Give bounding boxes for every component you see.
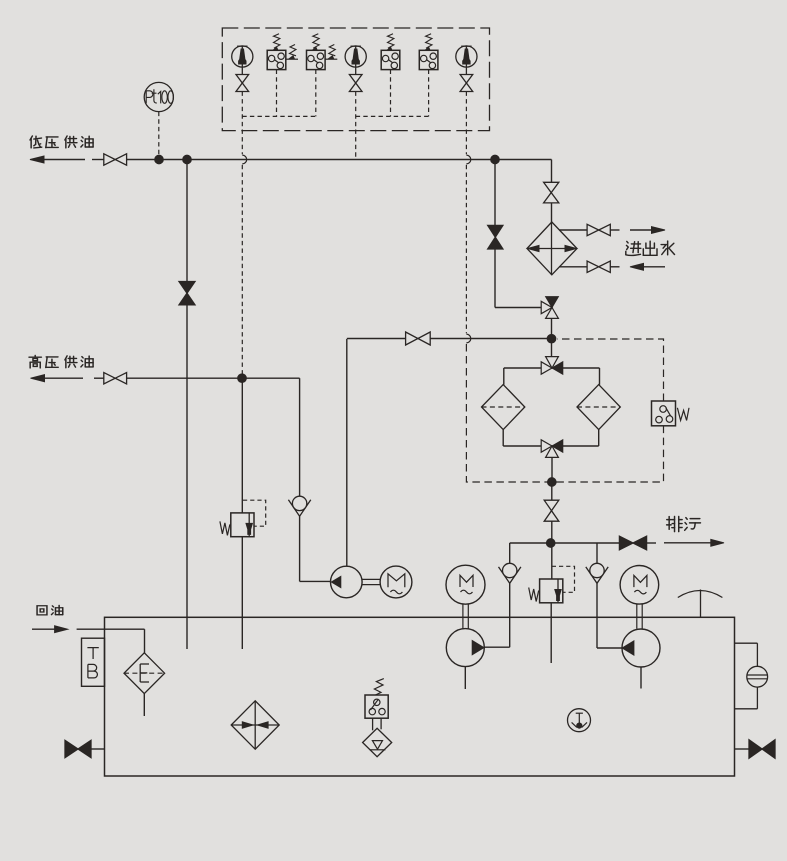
drain outlet arrow 排污 — [664, 539, 724, 546]
wire high-pressure header corner down to check valve — [299, 378, 301, 496]
wire back-pressure valve outlet into tank — [550, 603, 552, 663]
filter outlet rail wires — [503, 430, 599, 446]
junction node filter outlet on enclosure edge — [547, 478, 556, 487]
pilot relief valve (high pressure) — [220, 500, 266, 537]
thermostat box TB — [82, 638, 105, 686]
air breather filter — [231, 701, 279, 749]
dashed drop wire from PS2 — [315, 70, 317, 117]
wire valve to drain manifold node — [551, 521, 553, 543]
label cooling water 进出水 — [626, 241, 675, 255]
high-pressure header wire — [127, 377, 300, 379]
wire from header down to hand valve — [186, 160, 188, 282]
wire to low-pressure shutoff valve — [92, 159, 104, 161]
cooler bypass valve (closed, filled) — [488, 225, 503, 249]
dashed drop wire from PS3 — [390, 70, 392, 117]
high-pressure shutoff valve — [104, 373, 127, 384]
label low-pressure supply 低压供油 — [30, 136, 93, 148]
wire CV3 down to pump P3 outlet — [597, 583, 622, 648]
dashed stem under PG2 to low-pressure line — [355, 92, 357, 160]
wire manifold down to check valve CV3 — [596, 543, 598, 563]
oil level sight gauge — [735, 643, 768, 709]
dashed sensing bus joining PS1/PS2 to PG1 wire — [242, 115, 315, 117]
check valve CV3 — [586, 563, 608, 583]
temperature sensor Pt100 — [144, 82, 173, 111]
recirculation wire with corner at x=348 — [347, 338, 406, 340]
wire CV2 down to pump P2 outlet — [485, 583, 510, 647]
cooling water upper valve — [587, 224, 610, 235]
float body — [363, 728, 392, 756]
cooling water upper stub — [610, 229, 619, 231]
pump P3 suction stub into tank — [640, 667, 642, 689]
shutoff stem under PG1 / dashed drop wire to high-pressure line — [241, 92, 243, 155]
wire to high-pressure shutoff valve — [94, 377, 104, 379]
cooler isolating valve — [544, 182, 559, 203]
drain isolating valve — [544, 500, 559, 521]
stub drain valve left to tank — [91, 748, 105, 750]
wire header corner down to cooler isolating valve — [551, 160, 553, 183]
cooling water lower valve — [587, 261, 610, 272]
pressure switch PS3 — [381, 34, 400, 70]
coupling shaft M3-P3 — [637, 604, 642, 629]
dashed stem under PG3 down to duplex-filter box — [465, 92, 467, 155]
electric motor M2 — [446, 565, 485, 604]
junction node cooler outlet / recirculation / filter inlet — [547, 334, 556, 343]
drain manifold wire — [510, 542, 620, 544]
high-pressure pump P1 — [331, 566, 363, 598]
wire pump P1 top port up to recirculation line — [346, 339, 348, 566]
dashed wire PG3 hop over header then down — [466, 155, 470, 343]
pressure gauge PG3 — [456, 46, 477, 92]
junction node on header (Pt100 tap) — [155, 155, 164, 164]
circulating pump P2 — [446, 629, 484, 667]
check valve on high-pressure pump delivery — [288, 496, 310, 516]
blow-down valve (closed, filled) — [619, 536, 646, 550]
dashed drop wire from PS1 — [276, 70, 278, 117]
back-pressure pilot relief valve — [529, 566, 575, 603]
junction node gauge tap on high-pressure header — [238, 374, 247, 383]
label return oil 回油 — [37, 605, 63, 615]
wire manifold node down to back-pressure valve — [551, 543, 553, 579]
float level switch — [365, 695, 388, 730]
drain stub after valve — [647, 542, 656, 544]
recirculation shutoff valve — [406, 332, 431, 345]
wire check valve to pump outlet — [300, 516, 331, 581]
filter element F1 (left) — [482, 385, 525, 430]
dashed wire Pt100 to low-pressure line — [158, 112, 160, 160]
tank drain valve right (closed, filled) — [749, 740, 775, 758]
wire manifold down to check valve CV2 — [509, 543, 511, 563]
oil tank — [105, 617, 735, 776]
filter inlet rail wires — [504, 368, 600, 385]
coupling shaft M2-P2 — [463, 604, 468, 628]
filter inlet three-way changeover valve — [541, 357, 563, 375]
wire filter outlet down to node — [551, 457, 553, 482]
duplex filter dashed enclosure — [466, 339, 663, 482]
cooler bypass branch: wire from header node down — [494, 160, 496, 226]
label drain 排污 — [667, 516, 701, 531]
thermometer — [568, 709, 591, 732]
immersion heater E — [124, 653, 165, 694]
pressure gauge PG1 — [232, 46, 253, 92]
coupling shaft P1-M1 — [362, 579, 380, 584]
water cooler (heat exchanger) — [527, 222, 577, 275]
wire node down to filter inlet three-way valve — [551, 339, 553, 357]
low-pressure shutoff valve — [104, 154, 127, 165]
wire relief valve outlet into tank — [241, 537, 243, 649]
low-pressure outlet arrow — [30, 156, 85, 163]
tank drain valve left (closed, filled) — [65, 740, 91, 757]
breather cap on tank roof — [678, 590, 723, 618]
cooling water outlet arrow — [630, 263, 665, 270]
recirculation wire to filter-unit node — [430, 338, 551, 340]
pressure switch PS1 — [267, 34, 298, 70]
check valve CV2 — [499, 563, 521, 583]
junction node on header (standby pump branch) — [183, 155, 192, 164]
electric motor M1 — [380, 566, 412, 598]
pressure switch PS4 — [419, 34, 438, 70]
return oil inlet arrow — [32, 626, 68, 633]
wire three-way valve down to node — [551, 318, 553, 338]
heater stem — [143, 694, 145, 716]
pressure gauge PG2 — [345, 46, 366, 92]
dashed drop wire from PS4 — [428, 70, 430, 117]
pump P2 suction stub into tank — [464, 667, 466, 689]
wire filter node down to drain valve — [551, 482, 553, 500]
cooling water inlet arrow — [630, 227, 665, 234]
wire from high-pressure junction down to relief valve — [241, 378, 243, 513]
electric motor M3 — [620, 566, 659, 605]
cooling water lower branch wire — [559, 266, 587, 268]
dashed wire PG1 to high-pressure line with hop over header — [242, 155, 246, 375]
return wire into tank to heater — [77, 629, 145, 653]
low-pressure supply header wire — [127, 159, 552, 161]
filter element F2 (right) — [577, 385, 620, 430]
label high-pressure supply 高压供油 — [29, 355, 93, 367]
wire from hand valve into tank — [186, 305, 188, 649]
float level switch spring — [374, 679, 383, 695]
circulating pump P3 — [622, 629, 660, 667]
cooling water lower stub — [610, 266, 619, 268]
high-pressure outlet arrow — [31, 375, 84, 382]
junction node on header (cooler bypass branch) — [491, 155, 500, 164]
cooler bypass wire to three-way valve — [495, 249, 541, 308]
filter outlet three-way changeover valve — [541, 440, 563, 458]
hand shutoff valve (closed, filled) — [179, 282, 195, 305]
pressure switch PS2 — [307, 34, 338, 70]
instrument panel dashed enclosure — [222, 28, 489, 131]
differential-pressure switch on filter — [652, 401, 690, 426]
stub tank to drain valve right — [735, 748, 750, 750]
cooling water upper branch wire — [559, 229, 587, 231]
three-way valve under cooler — [541, 297, 558, 319]
dashed sensing bus joining PS3/PS4 to PG2 wire — [356, 115, 429, 117]
wire valve to cooler — [551, 203, 553, 222]
junction node drain manifold — [546, 539, 555, 548]
